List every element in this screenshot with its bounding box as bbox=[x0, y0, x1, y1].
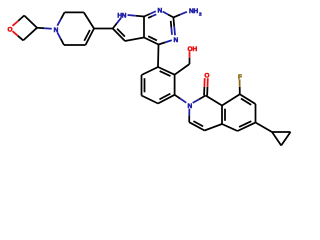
svg-text:N: N bbox=[54, 27, 59, 34]
svg-text:F: F bbox=[238, 74, 242, 81]
svg-text:O: O bbox=[204, 73, 209, 80]
svg-text:N: N bbox=[188, 103, 193, 110]
svg-text:N: N bbox=[157, 8, 162, 15]
svg-text:H: H bbox=[193, 8, 198, 15]
svg-text:2: 2 bbox=[199, 12, 202, 18]
svg-text:H: H bbox=[192, 46, 197, 53]
svg-text:N: N bbox=[174, 37, 179, 44]
svg-text:N: N bbox=[122, 13, 127, 20]
svg-text:O: O bbox=[7, 27, 12, 34]
